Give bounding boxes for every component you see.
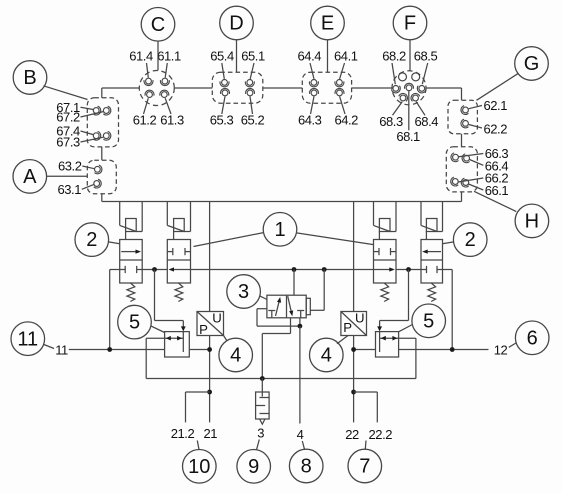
svg-text:10: 10 bbox=[188, 456, 210, 478]
connector C (round 4-pin) bbox=[139, 71, 174, 106]
port label 66.1 bbox=[469, 183, 509, 198]
port label 67.1 bbox=[56, 100, 93, 115]
junction node delivery right bbox=[351, 347, 356, 352]
hold valve left exhaust loop bbox=[146, 338, 164, 378]
pin label 64.3 bbox=[298, 96, 322, 127]
pin label 68.2 bbox=[382, 49, 406, 85]
pin label 68.3 bbox=[379, 102, 403, 129]
solenoid valve V2 (inner left, 2/2 NC) bbox=[167, 202, 190, 284]
port label 66.3 bbox=[459, 146, 509, 161]
svg-text:22.2: 22.2 bbox=[369, 427, 393, 442]
port label 63.1 bbox=[57, 182, 93, 197]
svg-text:68.4: 68.4 bbox=[415, 114, 439, 129]
svg-text:5: 5 bbox=[129, 312, 140, 334]
svg-text:68.1: 68.1 bbox=[396, 129, 420, 144]
junction node between V3/V4 bbox=[406, 267, 411, 272]
svg-text:D: D bbox=[229, 13, 243, 35]
pin label 65.4 bbox=[210, 49, 234, 79]
svg-text:P: P bbox=[199, 322, 208, 337]
svg-text:3: 3 bbox=[257, 425, 264, 440]
junction node 21 branch bbox=[207, 390, 212, 395]
svg-text:P: P bbox=[343, 320, 352, 335]
connector D (rectangular 4-pin) bbox=[212, 72, 262, 103]
callout circle G bbox=[477, 47, 549, 101]
svg-text:21.2: 21.2 bbox=[171, 426, 195, 441]
port label 66.4 bbox=[470, 158, 509, 173]
connector B (4-port fitting block) bbox=[87, 98, 118, 147]
svg-text:63.2: 63.2 bbox=[58, 158, 82, 173]
callout circle 11 bbox=[11, 322, 54, 356]
port 22.2 stub bbox=[354, 392, 378, 422]
pin label 61.4 bbox=[129, 49, 153, 78]
pressure transducer P/U (right) bbox=[341, 202, 367, 423]
junction node feeding select valve top bbox=[292, 267, 297, 272]
pin label 68.4 bbox=[415, 102, 439, 129]
label 21 bbox=[204, 426, 218, 441]
svg-text:7: 7 bbox=[359, 456, 370, 478]
port label 66.2 bbox=[458, 171, 508, 186]
pin label 68.1 bbox=[396, 91, 420, 144]
svg-text:68.3: 68.3 bbox=[379, 114, 403, 129]
svg-text:67.2: 67.2 bbox=[56, 109, 80, 124]
exhaust rail bbox=[146, 378, 416, 380]
svg-text:U: U bbox=[212, 311, 221, 326]
svg-text:G: G bbox=[524, 53, 540, 75]
callout circle 4 (right) bbox=[310, 336, 349, 372]
svg-text:2: 2 bbox=[465, 229, 476, 251]
svg-text:U: U bbox=[355, 311, 364, 326]
svg-text:F: F bbox=[404, 13, 416, 35]
callout circle F bbox=[393, 6, 427, 70]
port 12 supply rail bbox=[354, 349, 489, 351]
solenoid valve V1 (outer left, 2/2 NO) bbox=[120, 202, 143, 284]
junction node port12/valve4 branch bbox=[450, 347, 455, 352]
junction node feeding select valve right bbox=[322, 267, 327, 272]
svg-text:61.4: 61.4 bbox=[129, 49, 153, 64]
svg-text:61.2: 61.2 bbox=[133, 113, 157, 128]
port 11 supply rail bbox=[69, 349, 210, 351]
solenoid valve V4 (outer right, 2/2 NO) bbox=[421, 202, 443, 284]
svg-text:1: 1 bbox=[274, 219, 285, 241]
callout circle 9 bbox=[237, 440, 271, 484]
wire: rail to select valve top bbox=[293, 270, 295, 296]
spring of solenoid valve V3 (inner right, 2/2 NC) bbox=[381, 283, 389, 302]
svg-text:9: 9 bbox=[248, 456, 259, 478]
junction node port11/valve1 branch bbox=[107, 347, 112, 352]
pin label 61.2 bbox=[133, 98, 157, 127]
svg-text:65.3: 65.3 bbox=[210, 113, 234, 128]
pin label 61.3 bbox=[160, 98, 184, 127]
svg-text:61.1: 61.1 bbox=[157, 49, 181, 64]
connector H (4-port fitting block) bbox=[446, 147, 477, 192]
junction node delivery left bbox=[207, 347, 212, 352]
pin label 64.4 bbox=[298, 49, 322, 79]
callout circle C bbox=[141, 8, 175, 71]
callout circle 5 (right) bbox=[399, 304, 446, 338]
wire: rail to select valve right port bbox=[310, 270, 324, 311]
svg-text:2: 2 bbox=[86, 229, 97, 251]
wire: select valve left port loop bbox=[257, 309, 300, 326]
svg-text:63.1: 63.1 bbox=[57, 182, 81, 197]
label 22.2 bbox=[369, 427, 393, 442]
svg-text:64.4: 64.4 bbox=[298, 49, 322, 64]
hold valve (left) bbox=[155, 270, 190, 358]
svg-text:65.2: 65.2 bbox=[241, 113, 265, 128]
callout circle 2 (left) bbox=[75, 223, 120, 257]
callout circle 1 with leaders to inner valves bbox=[194, 213, 374, 247]
svg-text:6: 6 bbox=[527, 327, 538, 349]
hold valve right exhaust loop bbox=[399, 338, 416, 378]
solenoid valve V3 (inner right, 2/2 NC) bbox=[374, 202, 397, 284]
wire: select valve exhaust to silencer rail bbox=[262, 318, 290, 379]
svg-text:64.1: 64.1 bbox=[334, 49, 358, 64]
svg-text:4: 4 bbox=[297, 427, 304, 442]
callout circle B bbox=[13, 61, 87, 100]
select valve (3/2) body bbox=[267, 295, 310, 318]
svg-text:4: 4 bbox=[230, 345, 241, 367]
svg-text:E: E bbox=[321, 13, 334, 35]
port label 67.2 bbox=[56, 109, 103, 124]
svg-text:3: 3 bbox=[238, 281, 249, 303]
pin label 68.5 bbox=[414, 49, 438, 85]
svg-text:4: 4 bbox=[321, 345, 332, 367]
svg-text:62.1: 62.1 bbox=[484, 98, 508, 113]
svg-text:65.4: 65.4 bbox=[210, 49, 234, 64]
callout circle 4 (left) bbox=[219, 336, 253, 372]
svg-text:B: B bbox=[23, 67, 36, 89]
label 11 bbox=[55, 342, 68, 357]
junction node on control line (port 4) bbox=[298, 324, 303, 329]
svg-text:65.1: 65.1 bbox=[241, 49, 265, 64]
callout circle 5 (left) bbox=[118, 305, 165, 339]
callout circle 6 bbox=[509, 321, 549, 355]
port label 67.3 bbox=[56, 134, 103, 149]
callout circle A bbox=[13, 160, 87, 194]
callout circle 2 (right) bbox=[443, 223, 488, 257]
svg-text:68.5: 68.5 bbox=[414, 49, 438, 64]
svg-text:12: 12 bbox=[494, 342, 508, 357]
svg-text:64.3: 64.3 bbox=[298, 113, 322, 128]
connector F (round 7-pin) bbox=[391, 71, 426, 105]
svg-text:C: C bbox=[151, 14, 165, 36]
connector G (2-port fitting block) bbox=[448, 100, 477, 134]
wire: control line down to port 4 bbox=[299, 326, 301, 423]
pin label 65.2 bbox=[241, 96, 265, 127]
spring of solenoid valve V4 (outer right, 2/2 NO) bbox=[428, 283, 436, 302]
spring of solenoid valve V1 (outer left, 2/2 NO) bbox=[127, 283, 135, 302]
spring of solenoid valve V2 (inner left, 2/2 NC) bbox=[175, 283, 183, 302]
port label 63.2 bbox=[58, 158, 94, 173]
hold valve (right) bbox=[376, 270, 409, 358]
port label 67.4 bbox=[56, 123, 93, 138]
pin label 65.3 bbox=[210, 96, 234, 127]
svg-text:61.3: 61.3 bbox=[160, 113, 184, 128]
silencer (port 3) bbox=[256, 379, 270, 425]
junction node silencer tap bbox=[260, 376, 265, 381]
svg-text:11: 11 bbox=[55, 342, 68, 357]
callout circle 7 bbox=[348, 441, 382, 483]
connector E (rectangular 4-pin) bbox=[302, 72, 351, 103]
svg-text:64.2: 64.2 bbox=[334, 113, 358, 128]
pin label 65.1 bbox=[241, 49, 265, 79]
svg-text:H: H bbox=[525, 211, 539, 233]
svg-text:21: 21 bbox=[204, 426, 218, 441]
svg-text:22: 22 bbox=[345, 427, 359, 442]
svg-text:11: 11 bbox=[17, 328, 38, 350]
pressure transducer P/U (left) bbox=[197, 202, 224, 423]
svg-text:5: 5 bbox=[423, 310, 434, 332]
label 4 bbox=[297, 427, 304, 442]
pin label 64.1 bbox=[334, 49, 358, 79]
port label 62.1 bbox=[469, 98, 508, 113]
callout circle E bbox=[311, 6, 345, 72]
label 3 bbox=[257, 425, 264, 440]
svg-text:8: 8 bbox=[301, 456, 312, 478]
pin label 64.2 bbox=[334, 96, 358, 127]
callout circle D bbox=[220, 6, 254, 72]
label 22 bbox=[345, 427, 359, 442]
port 21.2 stub bbox=[186, 392, 210, 422]
callout circle 8 bbox=[289, 441, 323, 483]
svg-text:62.2: 62.2 bbox=[484, 121, 508, 136]
svg-text:A: A bbox=[23, 166, 37, 188]
callout circle H bbox=[474, 191, 549, 237]
manifold block outline (dash-interrupted rectangle) bbox=[102, 88, 462, 202]
connector A (2-port fitting block) bbox=[87, 160, 116, 194]
main wire rail y=269.5 bbox=[110, 270, 453, 350]
callout circle 10 bbox=[183, 441, 217, 484]
junction node 22 branch bbox=[351, 390, 356, 395]
svg-text:68.2: 68.2 bbox=[382, 49, 406, 64]
label 21.2 bbox=[171, 426, 195, 441]
svg-text:67.3: 67.3 bbox=[56, 134, 80, 149]
callout circle 3 bbox=[227, 275, 267, 309]
junction node between V1/V2 bbox=[152, 267, 157, 272]
port label 62.2 bbox=[469, 121, 508, 136]
pin label 61.1 bbox=[157, 49, 181, 78]
svg-text:66.1: 66.1 bbox=[485, 183, 509, 198]
label 12 bbox=[494, 342, 508, 357]
